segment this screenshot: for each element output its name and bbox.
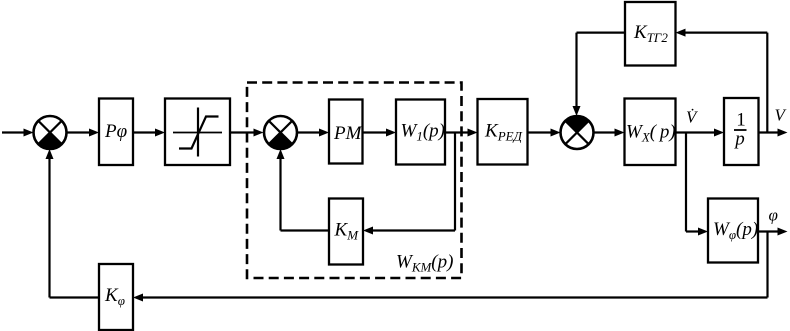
dashed enclosure W_KM xyxy=(247,83,462,279)
summing junction S1 xyxy=(34,116,67,149)
block 1/p xyxy=(724,98,759,165)
svg-text:1: 1 xyxy=(736,110,746,131)
wire V feedback up to KTG2 xyxy=(676,29,768,133)
block P_phi xyxy=(99,99,133,166)
wire KTG2 to S3 xyxy=(573,33,626,116)
wire Pphi to saturation xyxy=(133,129,165,137)
wire saturation to S2 xyxy=(230,129,264,137)
svg-text:V: V xyxy=(775,106,788,125)
block K_TG2 xyxy=(625,2,676,66)
summing junction S3 xyxy=(561,116,594,149)
wire S3 to WX xyxy=(594,129,625,137)
svg-text:Pφ: Pφ xyxy=(104,121,127,142)
wire WX to 1/p xyxy=(676,129,725,137)
wire input xyxy=(2,129,34,137)
wire KM to S2 xyxy=(277,149,330,231)
block PM xyxy=(329,100,363,164)
block W1(p) xyxy=(396,100,445,165)
block WX(p) xyxy=(625,99,676,166)
svg-text:V̇: V̇ xyxy=(686,108,699,127)
block saturation nonlinearity xyxy=(165,99,230,166)
wire PM to W1 xyxy=(363,129,397,137)
svg-text:p: p xyxy=(733,129,745,150)
block K_phi xyxy=(99,264,133,330)
wire S1 to Pphi xyxy=(67,129,100,137)
svg-text:W1(p): W1(p) xyxy=(401,121,445,144)
wire branch down to KM xyxy=(363,133,455,235)
svg-text:φ: φ xyxy=(769,206,778,225)
wire S2 to PM xyxy=(297,129,329,137)
wire output phi xyxy=(758,228,788,236)
wire output V xyxy=(759,129,788,137)
svg-text:Wφ(p): Wφ(p) xyxy=(713,219,758,242)
wire KRED to S3 xyxy=(528,129,561,137)
block KM xyxy=(329,199,363,265)
wire phi feedback down and left to Kphi xyxy=(133,232,768,302)
wire branch down to Wphi xyxy=(686,133,708,236)
svg-text:PM: PM xyxy=(333,123,363,144)
block Wphi(p) xyxy=(708,199,758,263)
summing junction S2 xyxy=(264,116,297,149)
svg-text:WX( p): WX( p) xyxy=(626,122,676,145)
block K_RED xyxy=(478,99,528,165)
svg-text:WКМ(p): WКМ(p) xyxy=(396,252,453,275)
wire W1 to KRED xyxy=(445,129,478,137)
wire Kphi to S1 xyxy=(46,149,100,298)
